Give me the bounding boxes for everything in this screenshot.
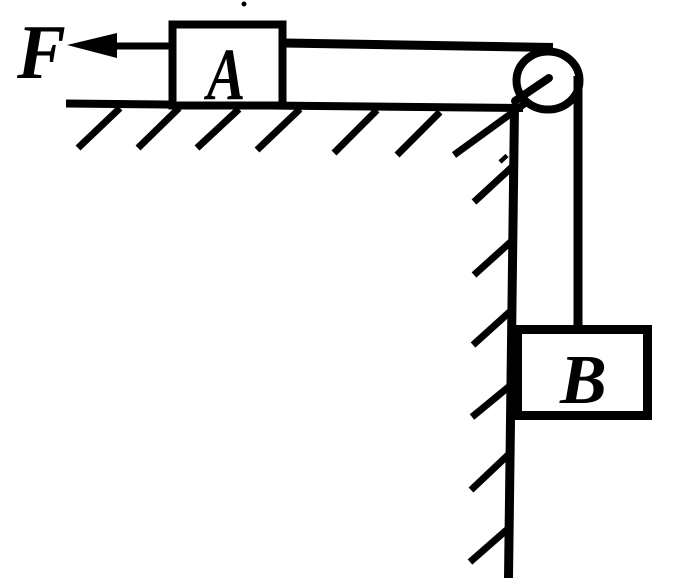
pulley axle mark — [515, 78, 549, 101]
label A — [203, 34, 245, 115]
svg-text:A: A — [203, 34, 245, 115]
block B — [518, 330, 648, 416]
force arrowhead — [67, 33, 117, 58]
rope A to pulley — [284, 43, 553, 48]
force label F — [16, 10, 66, 95]
table hatching — [78, 108, 440, 155]
long corner hatch — [454, 102, 527, 155]
table surface line — [66, 104, 523, 109]
force arrow shaft — [112, 43, 170, 50]
stray dot — [242, 2, 247, 7]
svg-text:F: F — [16, 10, 66, 95]
svg-text:B: B — [559, 342, 607, 419]
wall hatching — [470, 156, 515, 563]
pulley — [517, 52, 580, 110]
rope pulley to B — [574, 76, 583, 327]
wall line — [509, 107, 515, 578]
block A — [173, 25, 283, 106]
